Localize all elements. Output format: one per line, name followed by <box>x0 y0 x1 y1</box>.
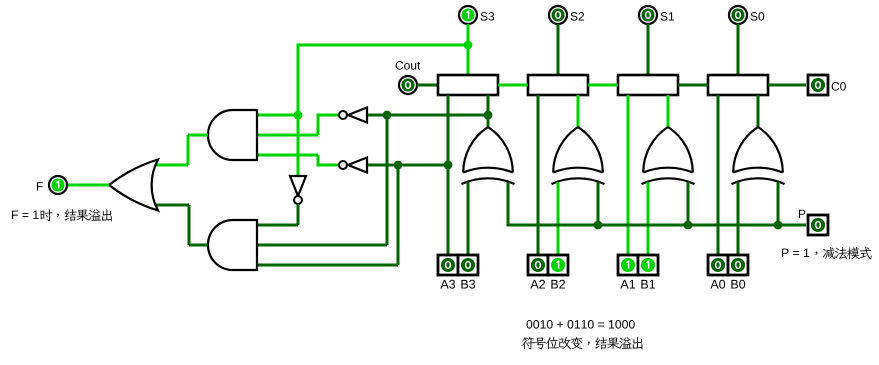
or gate U10 <box>109 160 158 211</box>
wire U6 output vertical <box>317 155 320 167</box>
label F <box>37 182 43 190</box>
wire C0 pin to U1 <box>768 84 806 87</box>
label S2 <box>571 12 585 20</box>
label B3 <box>461 280 475 289</box>
wire carry U2 to U3 <box>588 84 618 87</box>
junction P at X1 <box>774 221 783 230</box>
xor gate X3 <box>552 127 605 184</box>
label B2 <box>551 280 565 289</box>
junction B3-xor node <box>484 111 493 120</box>
label A0 <box>710 280 725 289</box>
label A3 <box>440 280 455 289</box>
input pin B0 <box>728 255 748 275</box>
wire S1 pin to adder U2 <box>647 24 650 75</box>
wire S3 to AND U7 input 1 <box>257 114 300 117</box>
junction S3 tap to AND U7 input <box>294 111 303 120</box>
output pin S2 <box>549 6 567 24</box>
wire U6 output to AND U7 input 3 <box>257 154 318 157</box>
wire carry U1 to U2 <box>678 84 708 87</box>
wire A0 pin to adder U1 <box>717 95 720 255</box>
input pin A0 <box>708 255 728 275</box>
junction A3 tap <box>444 161 453 170</box>
wire U7 output vertical <box>187 135 190 165</box>
output pin S1 <box>639 6 657 24</box>
wire P to XOR X4 input <box>507 182 510 227</box>
label B1 <box>641 280 655 289</box>
junction P at X3 <box>594 221 603 230</box>
wire S0 pin to adder U1 <box>737 24 740 75</box>
wire S3 branch horizontal to overflow logic <box>297 44 469 47</box>
inverter U6 (A3-node) <box>339 158 367 173</box>
adder box U1 (bit 0) <box>708 75 768 95</box>
label C0 <box>832 82 846 90</box>
text sum equation <box>526 320 634 329</box>
xor gate X1 <box>732 127 785 184</box>
input pin B2 <box>548 255 568 275</box>
label S1 <box>661 12 675 20</box>
label B0 <box>731 280 745 289</box>
text sign change note <box>522 337 643 350</box>
wire A3-node to inverter U6 <box>367 164 448 167</box>
input pin A3 <box>438 255 458 275</box>
adder box U3 (bit 2) <box>528 75 588 95</box>
wire B3-node to AND U8 input 2 <box>257 244 387 247</box>
wire U8 output to OR U10 input 2 <box>153 204 189 207</box>
wire inverter U5 output <box>318 114 339 117</box>
label A1 <box>620 280 635 289</box>
wire B3-node to inverter U5 <box>367 114 488 117</box>
wire A3-node to AND U8 input 3 <box>257 264 398 267</box>
output pin Cout <box>399 76 417 94</box>
wire B0 pin to XOR X1 <box>737 182 740 255</box>
input pin C0 <box>808 75 828 95</box>
xor gate X2 <box>642 127 695 184</box>
input pin A2 <box>528 255 548 275</box>
and gate U7 <box>208 110 257 160</box>
wire U5 output vertical <box>317 114 320 136</box>
wire B1 pin to XOR X2 <box>647 182 650 255</box>
wire U5 output to AND U7 input 2 <box>257 134 318 137</box>
wire U9 output vertical <box>297 204 300 225</box>
junction node S3 <box>464 41 473 50</box>
wire S3 pin to adder U4 (bit3) <box>467 24 470 75</box>
wire Cout to adder U4 <box>417 84 438 87</box>
wire inverter U6 output <box>318 164 339 167</box>
input pin A1 <box>618 255 638 275</box>
wire P branch to XOR X2 <box>687 182 690 225</box>
text P=1 subtract note <box>782 247 872 260</box>
label P <box>799 210 805 218</box>
wire S2 pin to adder U3 <box>557 24 560 75</box>
wire A3-node vertical to AND U8 <box>397 165 400 265</box>
junction A3-node branch <box>394 161 403 170</box>
wire OR U10 output to F pin <box>67 184 109 187</box>
output pin S0 <box>729 6 747 24</box>
wire A1 pin to adder U2 <box>627 95 630 255</box>
input pin P <box>808 215 828 235</box>
label Cout <box>396 61 421 69</box>
wire S3 branch vertical down to inverter U9 <box>297 44 300 176</box>
label A2 <box>530 280 545 289</box>
input pin B1 <box>638 255 658 275</box>
wire P branch to XOR X3 <box>597 182 600 225</box>
adder box U2 (bit 1) <box>618 75 678 95</box>
output pin F <box>49 176 67 194</box>
wire XOR X2 output to adder U2 <box>667 95 670 127</box>
and gate U8 <box>208 220 257 270</box>
wire P branch to XOR X1 <box>777 182 780 225</box>
wire P bus horizontal <box>507 224 807 227</box>
adder box U4 (bit 3) <box>438 75 498 95</box>
text F=1 overflow note <box>12 209 112 221</box>
wire B3 pin to XOR X4 <box>467 182 470 255</box>
wire U8 output vertical <box>188 205 191 245</box>
wire XOR X4 output to adder U4 <box>487 95 490 127</box>
xor gate X4 <box>462 127 515 184</box>
wire U7 output <box>188 134 208 137</box>
wire XOR X3 output to adder U3 <box>577 95 580 127</box>
output pin S3 <box>459 6 477 24</box>
label S0 <box>751 12 765 20</box>
wire A3 pin to adder U4 <box>447 95 450 255</box>
wire B3-node vertical to AND U8 <box>386 115 389 245</box>
junction B3-node branch <box>383 111 392 120</box>
wire U7 output to OR U10 input 1 <box>153 164 188 167</box>
wire U8 output <box>189 244 208 247</box>
wire A2 pin to adder U3 <box>537 95 540 255</box>
input pin B3 <box>458 255 478 275</box>
wire carry U3 to U4 <box>498 84 528 87</box>
wire XOR X1 output to adder U1 <box>757 95 760 127</box>
inverter U5 (B3-node) <box>339 108 367 123</box>
label S3 <box>481 12 495 20</box>
inverter U9 (S3) <box>290 176 306 204</box>
junction P at X2 <box>684 221 693 230</box>
wire U9 output to AND U8 input 1 <box>257 224 298 227</box>
wire B2 pin to XOR X3 <box>557 182 560 255</box>
